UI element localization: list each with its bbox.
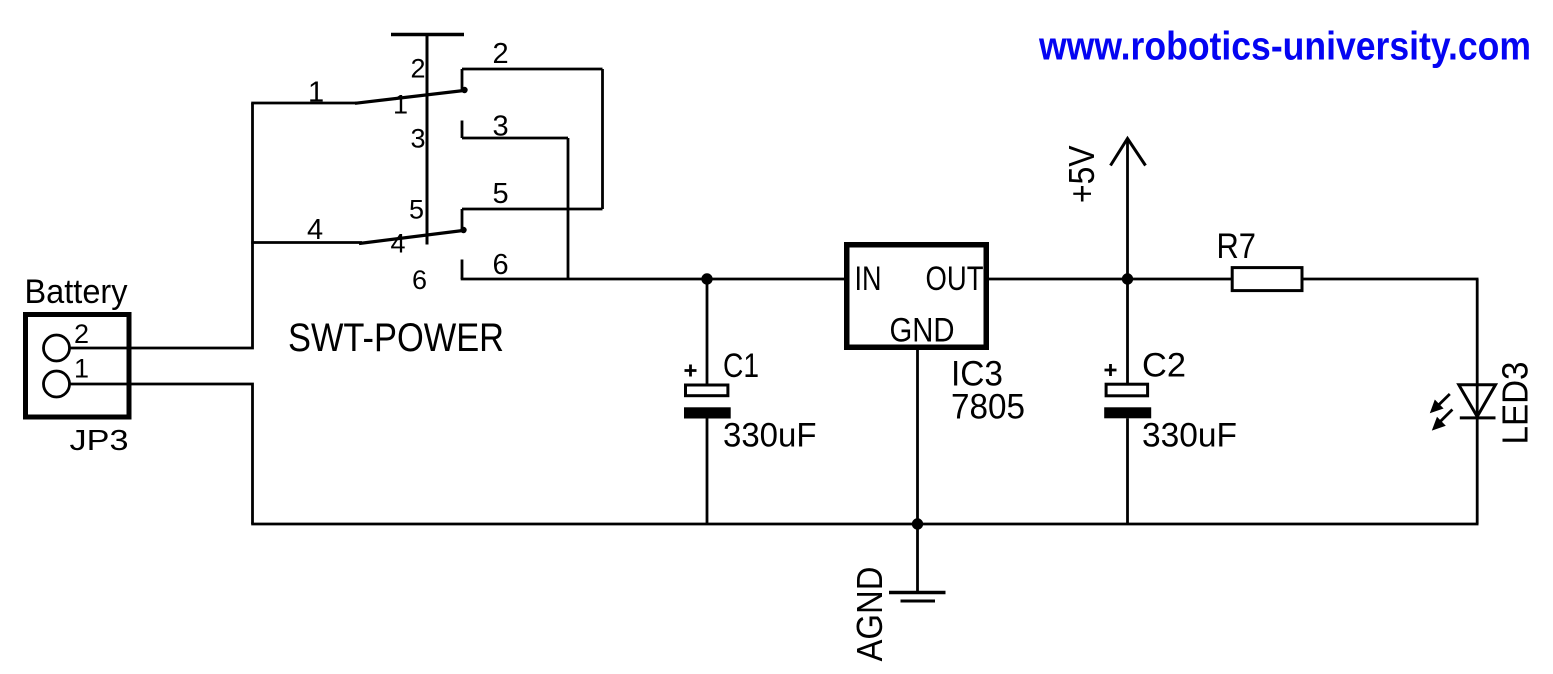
svg-text:SWT-POWER: SWT-POWER — [288, 316, 504, 360]
capacitor C1 plus sign — [685, 365, 697, 377]
switch lever 4 pivot dot — [460, 227, 466, 233]
LED3 emission arrow 2 — [1432, 410, 1453, 431]
switch contact stub pin 3 — [461, 121, 464, 139]
+5V arrow head — [1111, 139, 1146, 166]
resistor R7 body — [1232, 268, 1302, 291]
svg-text:330uF: 330uF — [1142, 417, 1237, 455]
svg-text:LED3: LED3 — [1495, 362, 1536, 445]
wire joining net 2 to net 5 — [601, 69, 604, 209]
wire to switch pole 4 — [251, 241, 362, 244]
svg-text:C1: C1 — [723, 347, 759, 385]
switch contact stub pin 2 — [461, 69, 464, 92]
svg-text:AGND: AGND — [849, 567, 890, 662]
svg-text:2: 2 — [74, 319, 89, 349]
ground symbol AGND bar 2 — [901, 600, 936, 603]
wire net from pin 5 — [462, 208, 603, 211]
capacitor C2 top plate — [1106, 384, 1148, 396]
svg-text:6: 6 — [493, 249, 509, 281]
JP3 pin 2 circle — [44, 335, 70, 361]
svg-text:C2: C2 — [1142, 347, 1186, 385]
svg-text:1: 1 — [308, 77, 324, 109]
svg-text:IN: IN — [855, 260, 882, 298]
switch lever 1 pivot dot — [461, 87, 467, 93]
svg-text:2: 2 — [410, 54, 425, 84]
JP3 pin 1 circle — [44, 371, 70, 397]
wire C1 lower lead — [706, 419, 709, 525]
LED3 triangle — [1459, 385, 1496, 417]
voltage regulator IC3 7805 box — [847, 245, 987, 348]
svg-text:OUT: OUT — [926, 260, 984, 298]
svg-text:3: 3 — [493, 110, 509, 142]
+5V supply line — [1126, 139, 1129, 279]
wire regulator OUT rail — [989, 278, 1479, 281]
svg-text:4: 4 — [391, 229, 406, 259]
switch lever pole 1 — [355, 91, 464, 104]
wire battery pin1 down to ground rail — [70, 384, 253, 524]
svg-text:330uF: 330uF — [723, 417, 817, 455]
junction node at C1 top — [701, 273, 712, 284]
wire LED branch — [1476, 279, 1479, 524]
junction node at +5V / C2 / R7 — [1122, 273, 1133, 284]
wire C2 upper lead — [1126, 279, 1129, 385]
wire to switch pole 1 — [251, 102, 357, 105]
switch actuator bar — [426, 33, 429, 245]
switch contact stub pin 5 — [461, 209, 464, 231]
svg-text:www.robotics-university.com: www.robotics-university.com — [1038, 25, 1531, 69]
capacitor C1 top plate — [686, 385, 728, 396]
wire net from pin 3 — [462, 137, 568, 140]
switch SWT-POWER actuator cap — [391, 33, 464, 37]
capacitor C1 bottom plate — [684, 407, 731, 418]
wire net 6 rail to regulator IN — [461, 278, 844, 281]
svg-text:6: 6 — [412, 265, 427, 295]
LED3 cathode bar — [1460, 416, 1496, 419]
wire C2 lower lead — [1126, 418, 1129, 524]
svg-text:4: 4 — [307, 214, 323, 246]
svg-text:GND: GND — [890, 312, 955, 350]
capacitor C2 bottom plate — [1104, 407, 1151, 418]
wire regulator GND lead — [916, 347, 919, 592]
ground rail wire — [251, 523, 1478, 526]
connector JP3 battery box — [26, 315, 130, 418]
switch lever pole 4 — [359, 231, 463, 244]
wire joining net 3 to net 6 — [567, 138, 570, 279]
svg-text:R7: R7 — [1217, 227, 1257, 266]
wire C1 upper lead — [706, 279, 709, 384]
svg-text:2: 2 — [493, 38, 509, 70]
wire net from pin 2 — [462, 68, 603, 71]
svg-text:Battery: Battery — [25, 273, 128, 311]
svg-text:5: 5 — [493, 178, 509, 210]
wire battery pin2 to switch poles — [70, 103, 253, 348]
svg-text:+5V: +5V — [1061, 146, 1102, 204]
svg-text:7805: 7805 — [951, 388, 1025, 427]
capacitor C2 plus sign — [1105, 364, 1117, 376]
junction node at ground rail — [912, 518, 923, 529]
ground symbol AGND bar 1 — [889, 591, 946, 595]
LED3 emission arrow 1 — [1430, 394, 1450, 413]
svg-text:1: 1 — [393, 90, 408, 120]
svg-text:JP3: JP3 — [70, 425, 129, 457]
switch contact stub pin 6 — [461, 260, 464, 280]
svg-text:1: 1 — [74, 354, 89, 384]
svg-text:5: 5 — [409, 195, 424, 225]
svg-text:3: 3 — [410, 124, 425, 154]
